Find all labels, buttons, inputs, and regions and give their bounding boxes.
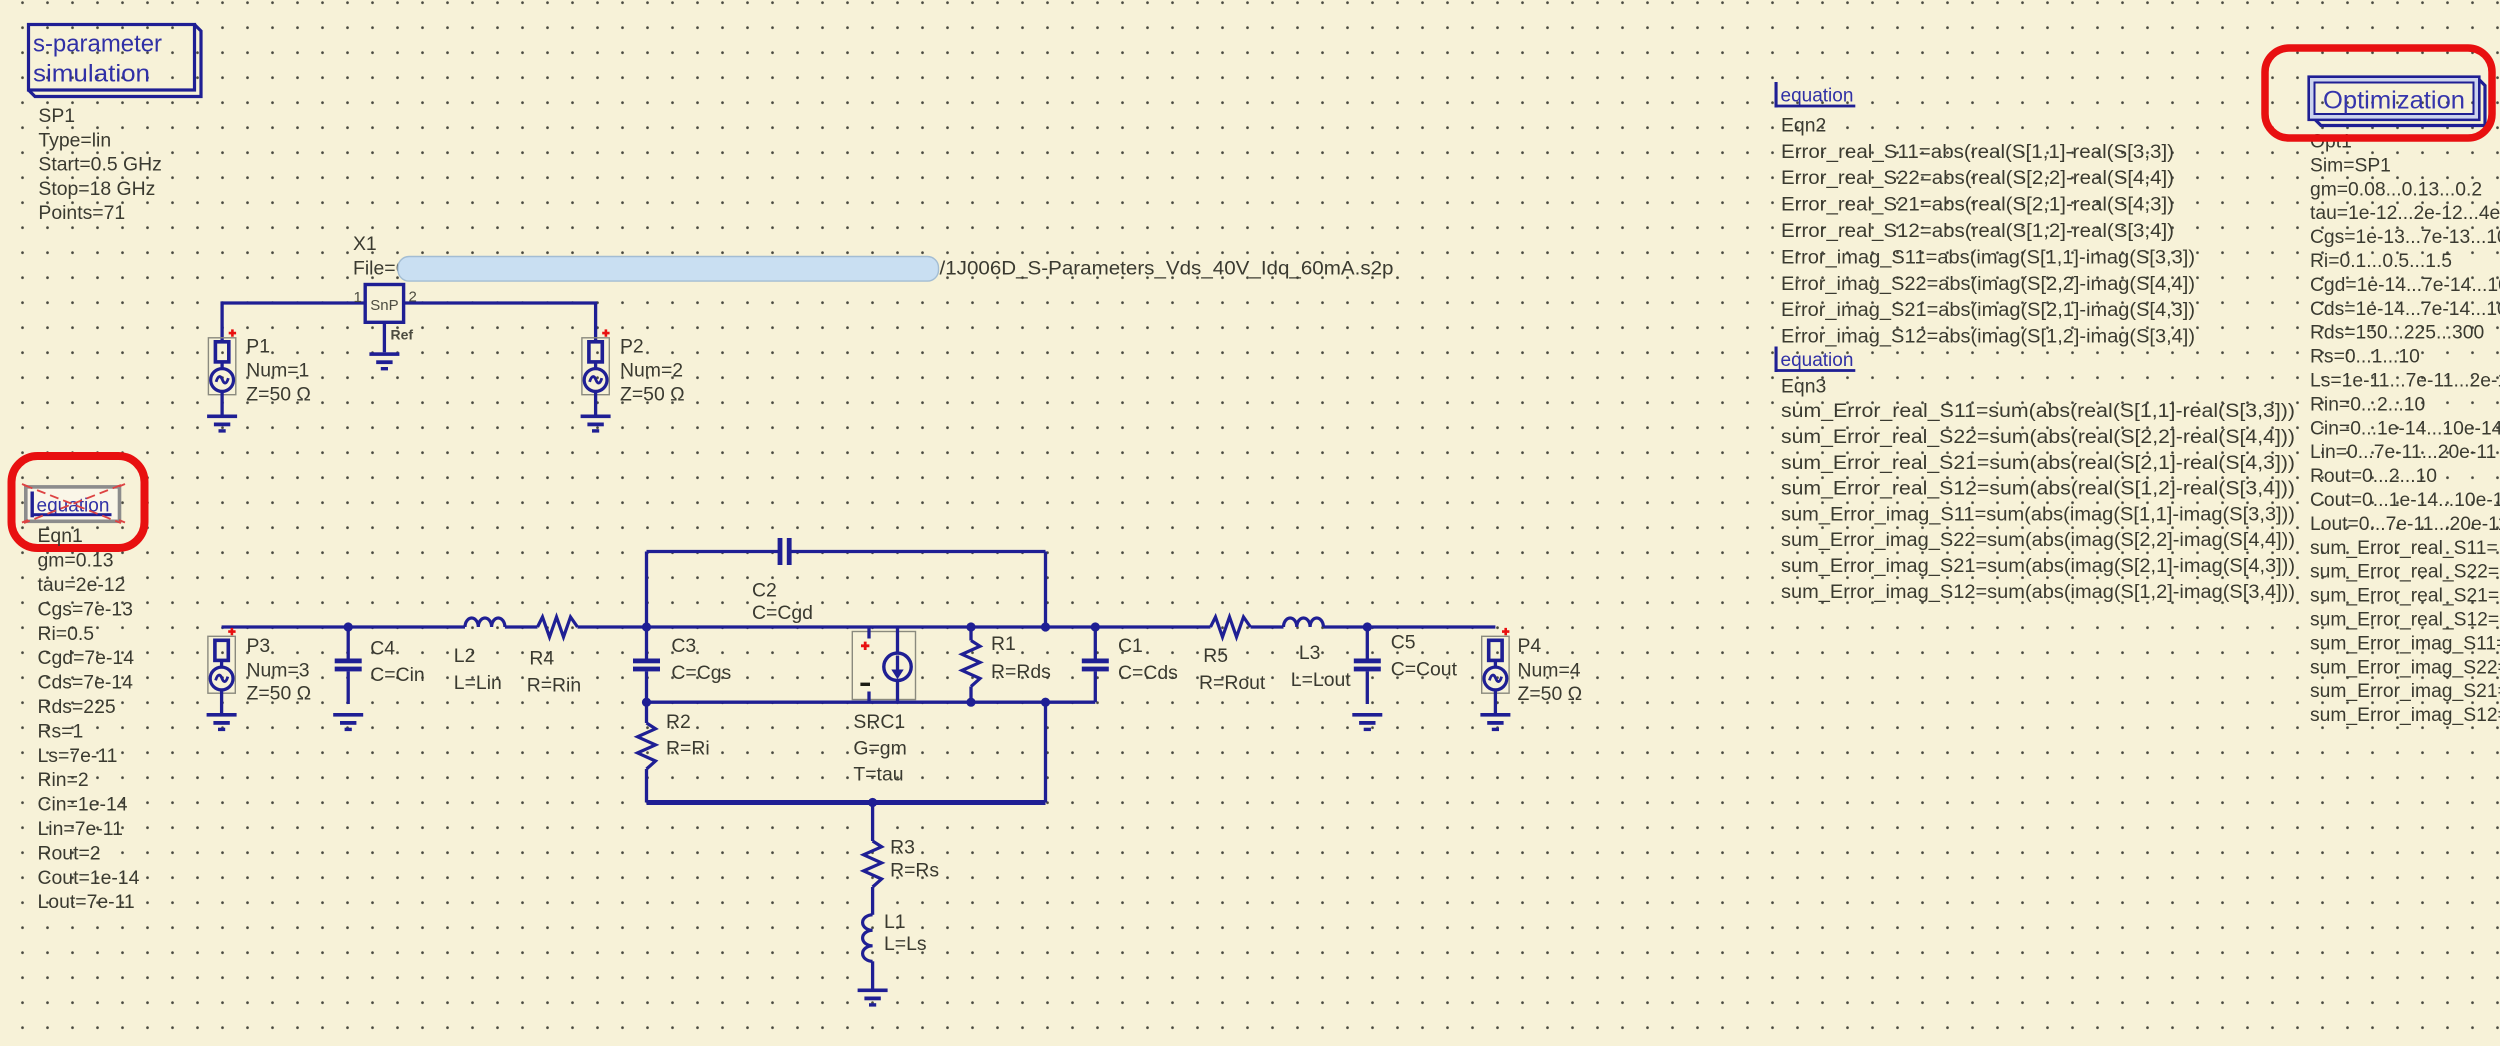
junction node C3 bottom bbox=[642, 698, 651, 707]
svg-text:sum_Error_imag_S12=: sum_Error_imag_S12= bbox=[2310, 705, 2500, 726]
svg-text:Error_real_S22=abs(real(S[2,2]: Error_real_S22=abs(real(S[2,2]-real(S[4,… bbox=[1781, 168, 2174, 189]
wire bottom bus bbox=[647, 800, 1046, 805]
label C4 C=Cin bbox=[370, 638, 424, 687]
svg-text:C4: C4 bbox=[370, 638, 395, 660]
label R1 R=Rds bbox=[991, 633, 1051, 683]
svg-text:Cin=0...1e-14...10e-14: Cin=0...1e-14...10e-14 bbox=[2310, 418, 2500, 439]
wire R5 to L3 bbox=[1251, 625, 1284, 628]
svg-text:sum_Error_imag_S11=: sum_Error_imag_S11= bbox=[2310, 633, 2500, 654]
svg-text:Cgs=7e-13: Cgs=7e-13 bbox=[38, 598, 133, 620]
inductor L1 bbox=[863, 915, 873, 989]
capacitor C5 (shunt with ground) bbox=[1352, 627, 1382, 731]
svg-text:C5: C5 bbox=[1391, 631, 1416, 653]
svg-text:Num=3: Num=3 bbox=[247, 660, 310, 682]
svg-text:s-parameter: s-parameter bbox=[33, 31, 162, 58]
svg-text:sum_Error_imag_S21=: sum_Error_imag_S21= bbox=[2310, 681, 2500, 702]
svg-text:Z=50 Ω: Z=50 Ω bbox=[620, 384, 685, 406]
wire SnP pin 2 to P2 corner bbox=[404, 301, 597, 304]
port P1 bbox=[207, 329, 237, 432]
svg-text:Rds=225: Rds=225 bbox=[38, 696, 116, 718]
svg-text:T=tau: T=tau bbox=[853, 764, 903, 786]
svg-text:Lout=7e-11: Lout=7e-11 bbox=[38, 891, 135, 913]
svg-text:Rin=0...2...10: Rin=0...2...10 bbox=[2310, 394, 2425, 415]
svg-text:C=Cds: C=Cds bbox=[1118, 662, 1178, 684]
svg-text:Rout=2: Rout=2 bbox=[38, 842, 101, 864]
svg-text:tau=2e-12: tau=2e-12 bbox=[38, 574, 126, 596]
svg-text:R1: R1 bbox=[991, 633, 1016, 655]
svg-text:Eqn1: Eqn1 bbox=[38, 525, 83, 547]
svg-text:Ls=1e-11...7e-11...2e-10: Ls=1e-11...7e-11...2e-10 bbox=[2310, 371, 2500, 392]
junction node C3 top bbox=[642, 622, 651, 631]
label P3 Num=3 Z=50 bbox=[247, 635, 312, 705]
label Eqn3 equations bbox=[1781, 376, 2295, 603]
svg-text:Start=0.5 GHz: Start=0.5 GHz bbox=[38, 154, 161, 176]
svg-text:sum_Error_real_S21=sum(abs(rea: sum_Error_real_S21=sum(abs(real(S[2,1]-r… bbox=[1781, 453, 2295, 474]
svg-text:R=Rin: R=Rin bbox=[527, 675, 581, 697]
svg-text:Sim=SP1: Sim=SP1 bbox=[2310, 155, 2391, 176]
svg-text:X1: X1 bbox=[353, 233, 377, 255]
subcircuit X1 SnP box bbox=[365, 285, 403, 323]
label SP1 parameter list bbox=[38, 105, 161, 224]
wire P1 to SnP pin 1 bbox=[221, 301, 366, 304]
svg-text:Lin=0...7e-11...20e-11: Lin=0...7e-11...20e-11 bbox=[2310, 442, 2496, 463]
label P1 Num=1 Z=50 bbox=[246, 336, 311, 406]
label L3 L=Lout bbox=[1291, 642, 1351, 691]
svg-text:L=Lin: L=Lin bbox=[454, 672, 502, 694]
svg-text:Ref: Ref bbox=[391, 327, 414, 343]
label SRC1 G=gm T=tau bbox=[853, 711, 906, 785]
svg-text:sum_Error_real_S11=: sum_Error_real_S11= bbox=[2310, 538, 2498, 559]
wire L3 to P4 corner bbox=[1323, 625, 1495, 628]
resistor R3 bbox=[864, 803, 882, 915]
svg-text:Z=50 Ω: Z=50 Ω bbox=[246, 384, 311, 406]
wire right leg to bottom bus bbox=[1044, 702, 1047, 802]
svg-text:Cout=1e-14: Cout=1e-14 bbox=[38, 867, 140, 889]
capacitor C2 (feedback) bbox=[778, 538, 792, 565]
svg-text:Error_real_S12=abs(real(S[1,2]: Error_real_S12=abs(real(S[1,2]-real(S[3,… bbox=[1781, 221, 2174, 242]
svg-text:sum_Error_imag_S22=sum(abs(ima: sum_Error_imag_S22=sum(abs(imag(S[2,2]-i… bbox=[1781, 530, 2295, 551]
svg-text:Rs=1: Rs=1 bbox=[38, 720, 84, 742]
svg-text:R=Ri: R=Ri bbox=[666, 738, 710, 760]
label C2 C=Cgd bbox=[752, 579, 813, 624]
svg-text:Rout=0...2...10: Rout=0...2...10 bbox=[2310, 466, 2437, 487]
wire main node: P3 to L2 bbox=[222, 625, 465, 628]
pin number 1 (SnP) bbox=[354, 289, 362, 306]
svg-text:P1: P1 bbox=[246, 336, 270, 358]
equation header (Eqn3 block) bbox=[1775, 347, 1856, 373]
label X1 designator bbox=[353, 233, 377, 255]
svg-text:Error_imag_S12=abs(imag(S[1,2]: Error_imag_S12=abs(imag(S[1,2]-imag(S[3,… bbox=[1781, 327, 2195, 348]
svg-text:Error_real_S11=abs(real(S[1,1]: Error_real_S11=abs(real(S[1,1]-real(S[3,… bbox=[1781, 142, 2174, 163]
svg-text:/1J006D_S-Parameters_Vds_40V_I: /1J006D_S-Parameters_Vds_40V_Idq_60mA.s2… bbox=[940, 258, 1394, 280]
resistor R5 bbox=[1211, 617, 1251, 637]
resistor R2 bbox=[638, 702, 656, 802]
resistor R4 bbox=[538, 617, 578, 637]
svg-text:1: 1 bbox=[354, 289, 362, 306]
label R2 R=Ri bbox=[666, 711, 710, 760]
label Opt1 parameter list bbox=[2310, 132, 2500, 727]
svg-text:Cgd=1e-14...7e-14...10e-14: Cgd=1e-14...7e-14...10e-14 bbox=[2310, 275, 2500, 296]
svg-text:Num=4: Num=4 bbox=[1518, 660, 1581, 682]
junction node C1 top bbox=[1091, 622, 1100, 631]
junction node R1 top bbox=[966, 622, 975, 631]
svg-text:SP1: SP1 bbox=[38, 105, 75, 127]
svg-text:L3: L3 bbox=[1299, 642, 1321, 664]
wire P1 vertical stub bbox=[220, 302, 223, 343]
wire P2 vertical stub bbox=[594, 302, 597, 343]
svg-text:C1: C1 bbox=[1118, 635, 1143, 657]
svg-text:SnP: SnP bbox=[370, 297, 398, 314]
junction node C2 right leg / main wire bbox=[1041, 622, 1050, 631]
svg-text:Num=2: Num=2 bbox=[620, 360, 683, 382]
svg-text:sum_Error_real_S11=sum(abs(rea: sum_Error_real_S11=sum(abs(real(S[1,1]-r… bbox=[1781, 401, 2295, 422]
svg-text:Eqn3: Eqn3 bbox=[1781, 376, 1826, 398]
wire SRC1 to R5 bbox=[898, 625, 1211, 628]
junction node at C4 bbox=[344, 622, 353, 631]
svg-text:R3: R3 bbox=[890, 836, 915, 858]
svg-text:sum_Error_imag_S22=: sum_Error_imag_S22= bbox=[2310, 657, 2500, 678]
svg-text:sum_Error_imag_S12=sum(abs(ima: sum_Error_imag_S12=sum(abs(imag(S[1,2]-i… bbox=[1781, 582, 2295, 603]
red highlight circle (around Optimization box) bbox=[2265, 48, 2492, 138]
junction node R1 bottom bbox=[966, 698, 975, 707]
svg-text:equation: equation bbox=[1781, 350, 1854, 371]
svg-text:Cds=7e-14: Cds=7e-14 bbox=[38, 672, 134, 694]
junction node lower wire to bus leg bbox=[1041, 698, 1050, 707]
svg-text:Rs=0...1...10: Rs=0...1...10 bbox=[2310, 347, 2420, 368]
label File= parameter with blurred path box bbox=[353, 257, 1394, 282]
junction node R3 / bus bbox=[868, 798, 877, 807]
vccs SRC1 bbox=[852, 627, 915, 702]
svg-text:Points=71: Points=71 bbox=[38, 202, 125, 224]
svg-text:tau=1e-12...2e-12...4e-12: tau=1e-12...2e-12...4e-12 bbox=[2310, 203, 2500, 224]
optimization controller box Opt1 bbox=[2309, 77, 2485, 126]
junction node C5 top bbox=[1363, 622, 1372, 631]
ground (source leg) bbox=[858, 989, 888, 1007]
svg-text:L1: L1 bbox=[884, 911, 906, 933]
svg-text:P4: P4 bbox=[1518, 635, 1542, 657]
svg-text:R4: R4 bbox=[529, 648, 554, 670]
label L2 L=Lin bbox=[454, 645, 502, 694]
svg-text:R=Rds: R=Rds bbox=[991, 661, 1051, 683]
label C5 C=Cout bbox=[1391, 631, 1458, 680]
label Eqn2 equations bbox=[1781, 115, 2195, 348]
label C3 C=Cgs bbox=[671, 635, 731, 684]
svg-text:C=Cin: C=Cin bbox=[370, 664, 424, 686]
svg-text:equation: equation bbox=[1781, 86, 1854, 107]
wire SnP Ref stub bbox=[383, 322, 386, 352]
svg-text:C=Cgs: C=Cgs bbox=[671, 662, 731, 684]
label P2 Num=2 Z=50 bbox=[620, 336, 685, 406]
svg-text:Ls=7e-11: Ls=7e-11 bbox=[38, 745, 118, 767]
svg-text:gm=0.08...0.13...0.2: gm=0.08...0.13...0.2 bbox=[2310, 179, 2482, 200]
label P4 Num=4 Z=50 bbox=[1518, 635, 1583, 705]
pin number 2 (SnP) bbox=[409, 289, 417, 306]
svg-text:Error_imag_S22=abs(imag(S[2,2]: Error_imag_S22=abs(imag(S[2,2]-imag(S[4,… bbox=[1781, 274, 2195, 295]
label C1 C=Cds bbox=[1118, 635, 1178, 684]
svg-text:Ri=0.5: Ri=0.5 bbox=[38, 623, 95, 645]
capacitor C4 (shunt with ground) bbox=[333, 627, 363, 731]
wire R4 to SRC1 bbox=[578, 625, 898, 628]
svg-text:P2: P2 bbox=[620, 336, 644, 358]
svg-text:Lout=0...7e-11...20e-11: Lout=0...7e-11...20e-11 bbox=[2310, 514, 2500, 535]
svg-text:C=Cout: C=Cout bbox=[1391, 658, 1458, 680]
pin label Ref bbox=[391, 327, 414, 343]
svg-text:Stop=18 GHz: Stop=18 GHz bbox=[38, 178, 155, 200]
svg-text:Error_real_S21=abs(real(S[2,1]: Error_real_S21=abs(real(S[2,1]-real(S[4,… bbox=[1781, 195, 2174, 216]
inductor L2 bbox=[465, 618, 505, 627]
wire L2 to R4 bbox=[505, 625, 538, 628]
port P4 bbox=[1480, 628, 1510, 731]
wire C2 loop left leg bbox=[645, 552, 648, 628]
equation header (Eqn2 block) bbox=[1775, 82, 1856, 108]
svg-text:Cgs=1e-13...7e-13...10e-13: Cgs=1e-13...7e-13...10e-13 bbox=[2310, 227, 2500, 248]
svg-text:L=Lout: L=Lout bbox=[1291, 669, 1351, 691]
wire lower node: C3 bottom to C1 bottom bbox=[647, 701, 1096, 704]
svg-text:L2: L2 bbox=[454, 645, 476, 667]
label R3 R=Rs bbox=[890, 836, 939, 881]
label Eqn1 variable list bbox=[38, 525, 140, 913]
resistor R1 bbox=[962, 627, 980, 702]
svg-text:simulation: simulation bbox=[33, 61, 150, 88]
svg-text:Ri=0.1...0.5...1.5: Ri=0.1...0.5...1.5 bbox=[2310, 251, 2452, 272]
svg-text:Cin=1e-14: Cin=1e-14 bbox=[38, 794, 128, 816]
svg-text:Rds=150...225...300: Rds=150...225...300 bbox=[2310, 323, 2484, 344]
capacitor C3 (series input) bbox=[633, 627, 660, 702]
svg-text:R=Rout: R=Rout bbox=[1199, 672, 1266, 694]
capacitor C1 (shunt) bbox=[1082, 627, 1109, 702]
svg-text:R2: R2 bbox=[666, 711, 691, 733]
svg-text:R5: R5 bbox=[1203, 645, 1228, 667]
red highlight circle (around Eqn1 equation box) bbox=[12, 456, 145, 548]
sim controller box "s-parameter simulation" (SP1) bbox=[29, 25, 202, 97]
svg-text:Error_imag_S21=abs(imag(S[2,1]: Error_imag_S21=abs(imag(S[2,1]-imag(S[4,… bbox=[1781, 300, 2195, 321]
port P2 bbox=[581, 329, 611, 432]
svg-text:Z=50 Ω: Z=50 Ω bbox=[1518, 683, 1583, 705]
wire C2 loop right leg bbox=[1044, 552, 1047, 628]
svg-text:sum_Error_real_S12=sum(abs(rea: sum_Error_real_S12=sum(abs(real(S[1,2]-r… bbox=[1781, 479, 2295, 500]
svg-text:R=Rs: R=Rs bbox=[890, 860, 939, 882]
svg-text:sum_Error_imag_S21=sum(abs(ima: sum_Error_imag_S21=sum(abs(imag(S[2,1]-i… bbox=[1781, 556, 2295, 577]
svg-text:Z=50 Ω: Z=50 Ω bbox=[247, 683, 312, 705]
svg-text:SRC1: SRC1 bbox=[853, 711, 905, 733]
label R5 R=Rout bbox=[1199, 645, 1266, 694]
svg-text:sum_Error_imag_S11=sum(abs(ima: sum_Error_imag_S11=sum(abs(imag(S[1,1]-i… bbox=[1781, 504, 2295, 525]
svg-text:Cgd=7e-14: Cgd=7e-14 bbox=[38, 647, 135, 669]
svg-text:L=Ls: L=Ls bbox=[884, 933, 927, 955]
svg-text:C3: C3 bbox=[671, 635, 696, 657]
svg-text:C=Cgd: C=Cgd bbox=[752, 602, 813, 624]
svg-text:sum_Error_real_S12=: sum_Error_real_S12= bbox=[2310, 610, 2499, 631]
svg-text:sum_Error_real_S22=: sum_Error_real_S22= bbox=[2310, 562, 2499, 583]
svg-text:G=gm: G=gm bbox=[853, 738, 906, 760]
svg-text:Rin=2: Rin=2 bbox=[38, 769, 89, 791]
svg-text:sum_Error_real_S22=sum(abs(rea: sum_Error_real_S22=sum(abs(real(S[2,2]-r… bbox=[1781, 427, 2295, 448]
port P3 bbox=[207, 628, 237, 731]
svg-text:C2: C2 bbox=[752, 579, 777, 601]
svg-text:Lin=7e-11: Lin=7e-11 bbox=[38, 818, 123, 840]
svg-text:Type=lin: Type=lin bbox=[38, 129, 111, 151]
svg-text:Num=1: Num=1 bbox=[246, 360, 309, 382]
equation box Eqn1 (deactivated, selected) bbox=[22, 484, 125, 523]
wire C2 loop top right segment bbox=[790, 550, 1046, 553]
svg-text:Eqn2: Eqn2 bbox=[1781, 115, 1826, 137]
svg-text:2: 2 bbox=[409, 289, 417, 306]
svg-text:Cout=0...1e-14...10e-14: Cout=0...1e-14...10e-14 bbox=[2310, 490, 2500, 511]
wire C2 loop top left segment bbox=[647, 550, 780, 553]
label R4 R=Rin bbox=[527, 648, 581, 697]
label L1 L=Ls bbox=[884, 911, 927, 955]
svg-text:Optimization: Optimization bbox=[2323, 87, 2465, 115]
ground (SnP Ref) bbox=[369, 352, 399, 370]
inductor L3 bbox=[1284, 618, 1324, 627]
svg-text:P3: P3 bbox=[247, 635, 271, 657]
svg-text:Error_imag_S11=abs(imag(S[1,1]: Error_imag_S11=abs(imag(S[1,1]-imag(S[3,… bbox=[1781, 247, 2195, 268]
svg-text:gm=0.13: gm=0.13 bbox=[38, 550, 114, 572]
svg-text:Cds=1e-14...7e-14...10e-14: Cds=1e-14...7e-14...10e-14 bbox=[2310, 299, 2500, 320]
svg-text:sum_Error_real_S21=: sum_Error_real_S21= bbox=[2310, 586, 2499, 607]
